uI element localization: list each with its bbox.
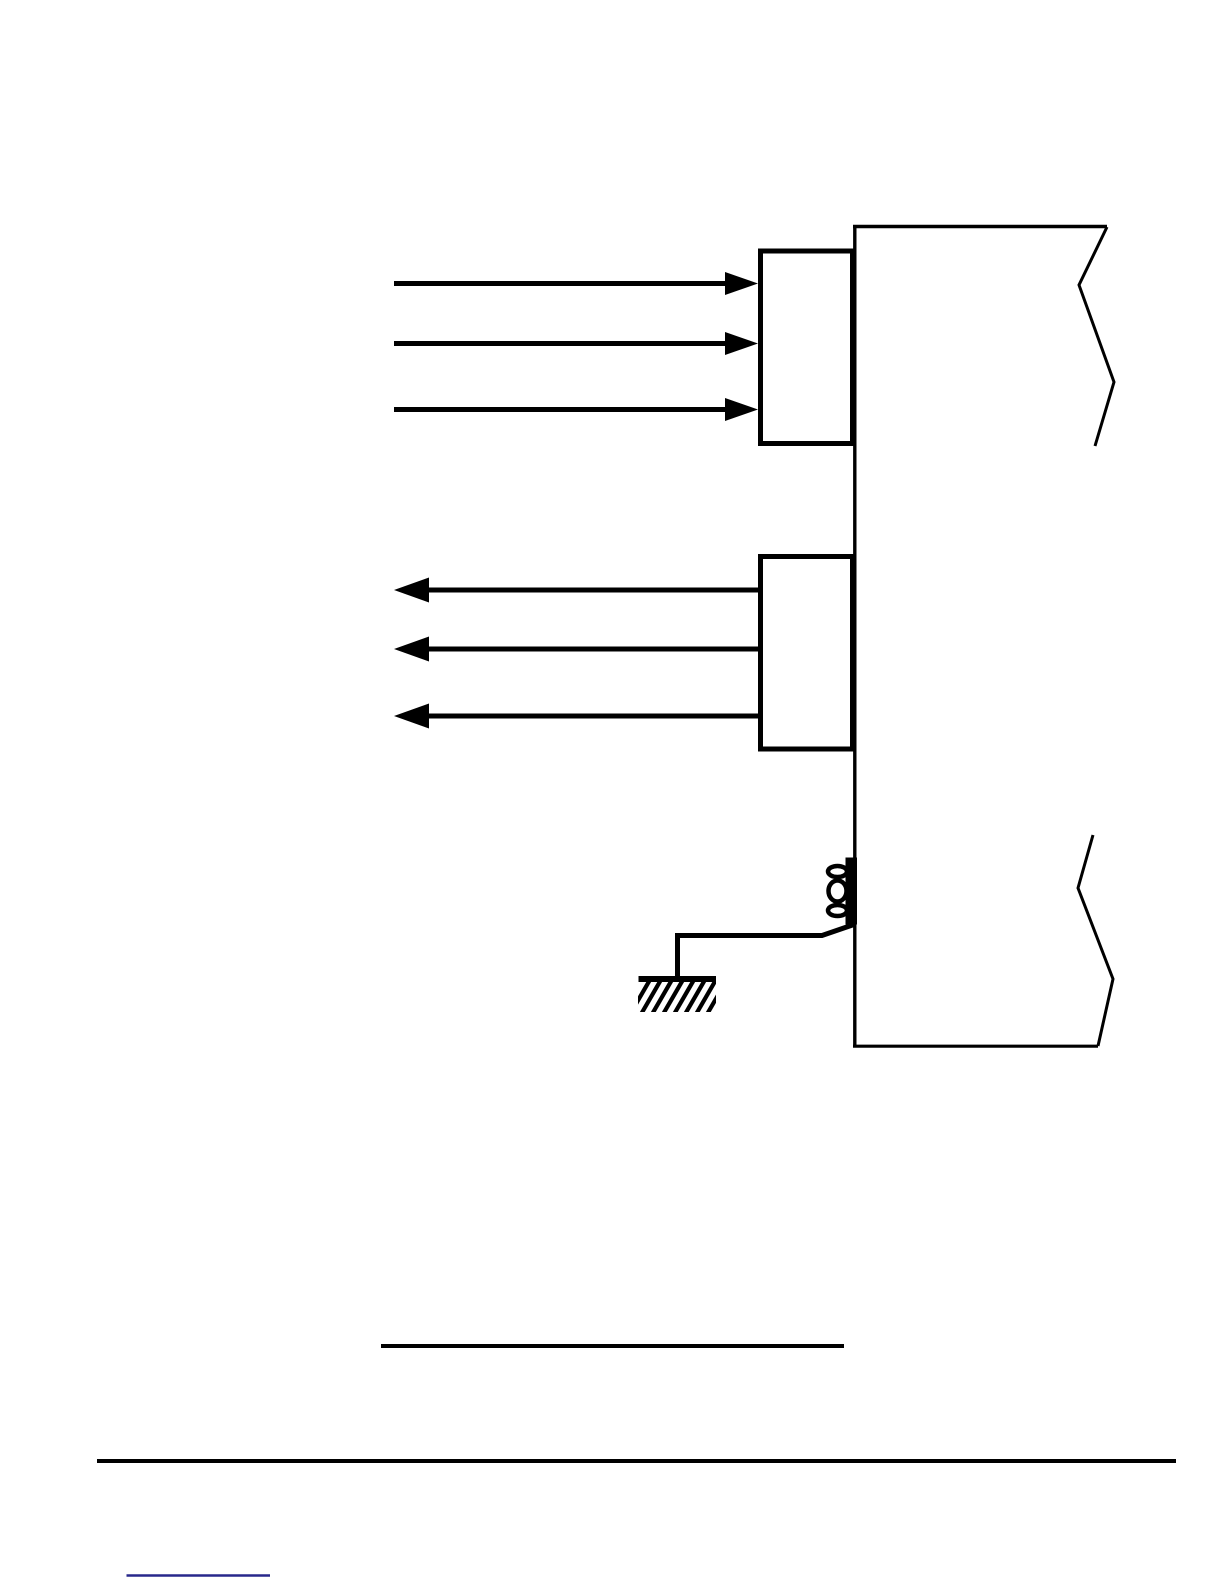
inductor L1 (ferrite coil on U1 edge) [828, 858, 857, 925]
wire bottom edge of U1 [853, 1045, 1098, 1048]
wire from L1 to ground [678, 925, 855, 979]
node: footer rule [97, 1459, 1176, 1463]
wire output arrow 1 from J2 [394, 578, 760, 603]
wire input arrow 2 into J1 [394, 332, 758, 355]
wire input arrow 1 into J1 [394, 272, 758, 295]
wire output arrow 3 from J2 [394, 704, 760, 729]
wire top edge of U1 [853, 225, 1107, 228]
wire top break (zigzag) of U1 [1079, 227, 1114, 446]
chassis ground symbol [629, 976, 739, 1016]
wire bottom break (zigzag) of U1 [1078, 835, 1113, 1046]
wire output arrow 2 from J2 [394, 637, 760, 662]
wire input arrow 3 into J1 [394, 398, 758, 421]
node: hyperlink underline (bottom left) [127, 1574, 271, 1576]
wire left edge of U1 [853, 226, 856, 1047]
connector J1 (top input block) [761, 251, 853, 444]
connector J2 (bottom output block) [761, 557, 853, 750]
device body U1 (broken-edge block) [853, 226, 1114, 1047]
node: figure caption underline [381, 1344, 844, 1348]
